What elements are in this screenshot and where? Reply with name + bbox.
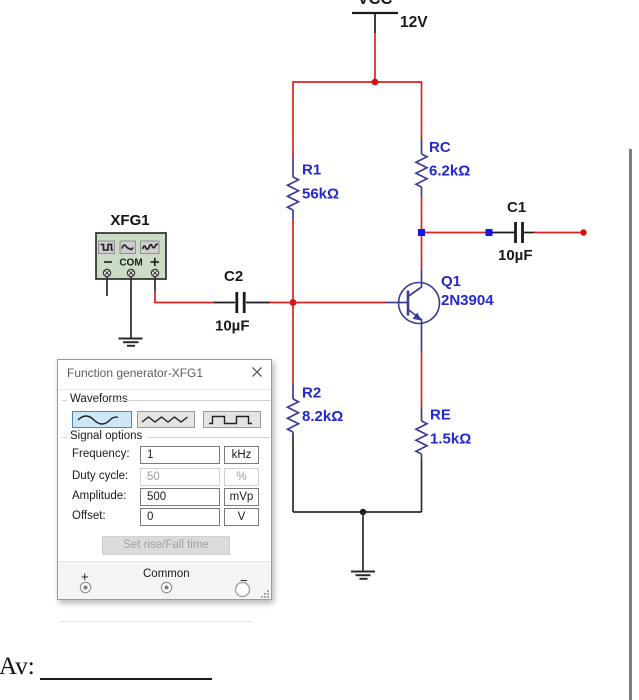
wire RC to collector node xyxy=(421,196,423,229)
resistor R2 xyxy=(288,384,344,435)
amplitude row xyxy=(72,490,126,502)
offset row xyxy=(72,510,106,522)
answer underline xyxy=(40,678,212,680)
svg-text:COM: COM xyxy=(119,258,142,269)
frequency row xyxy=(72,448,130,460)
signal options group label xyxy=(70,430,142,442)
svg-text:R2: R2 xyxy=(302,385,321,402)
wire XFG1 COM to ground xyxy=(130,277,132,339)
resistor R1 xyxy=(288,157,340,219)
svg-text:XFG1: XFG1 xyxy=(110,212,149,229)
svg-text:10µF: 10µF xyxy=(215,318,250,335)
wire output node to C1 xyxy=(425,232,486,234)
svg-text:RC: RC xyxy=(429,139,451,156)
plus radio xyxy=(79,581,92,594)
svg-text:RE: RE xyxy=(430,407,451,424)
wire RE to ground rail xyxy=(421,460,423,512)
svg-text:8.2kΩ: 8.2kΩ xyxy=(302,408,343,425)
wire left branch upper xyxy=(292,81,294,157)
scrollbar line xyxy=(629,149,632,700)
node collector square xyxy=(418,229,425,236)
dialog title xyxy=(67,366,203,380)
wire emitter xyxy=(421,351,423,407)
ground symbol main xyxy=(351,572,375,579)
output terminal dot xyxy=(580,229,586,235)
wire R2 to ground rail xyxy=(292,435,294,512)
svg-text:R1: R1 xyxy=(302,162,321,179)
waveforms group label xyxy=(70,393,128,405)
svg-text:10µF: 10µF xyxy=(498,247,533,264)
svg-text:C2: C2 xyxy=(224,268,243,285)
resistor RE xyxy=(416,407,471,461)
wire XFG1 plus lead xyxy=(155,277,214,303)
wire XFG1 minus stub xyxy=(106,277,108,296)
resistor RC xyxy=(416,139,470,196)
minus radio xyxy=(234,581,251,598)
power VCC symbol xyxy=(352,0,398,33)
label 12V xyxy=(400,14,428,31)
svg-text:VCC: VCC xyxy=(358,0,393,8)
wire right branch upper xyxy=(421,81,423,139)
waveform button triangle xyxy=(137,411,195,428)
function generator XFG1 icon xyxy=(96,212,166,279)
wire ground rail xyxy=(293,511,422,513)
svg-text:2N3904: 2N3904 xyxy=(441,292,494,309)
node C1 input square xyxy=(486,229,493,236)
svg-text:6.2kΩ: 6.2kΩ xyxy=(429,163,470,180)
wire left branch middle xyxy=(292,219,294,384)
instrument dialog Function generator-XFG1 xyxy=(57,359,272,600)
svg-text:1.5kΩ: 1.5kΩ xyxy=(430,431,471,448)
wire collector xyxy=(421,236,423,270)
resize grip xyxy=(260,589,270,599)
capacitor C1 xyxy=(493,199,535,264)
answer text Av xyxy=(0,653,35,681)
wire top rail xyxy=(293,81,422,83)
terminals row xyxy=(58,561,271,599)
wire C2 to base xyxy=(270,302,385,304)
wire VCC stem xyxy=(374,33,376,82)
wire ground stem xyxy=(362,512,364,572)
duty cycle row xyxy=(72,470,128,482)
ground symbol XFG1 xyxy=(119,339,143,346)
junction dot ground rail xyxy=(360,509,366,515)
junction dot top rail xyxy=(372,79,379,86)
waveform button sine selected xyxy=(72,411,132,428)
svg-text:56kΩ: 56kΩ xyxy=(302,186,339,203)
dialog close button xyxy=(251,366,263,378)
capacitor C2 xyxy=(214,268,270,335)
waveform button square xyxy=(203,411,261,428)
common radio xyxy=(160,581,173,594)
faint page line xyxy=(60,621,252,622)
svg-text:Q1: Q1 xyxy=(441,273,461,290)
svg-text:12V: 12V xyxy=(400,14,428,31)
set rise/fall button xyxy=(102,536,230,555)
svg-text:C1: C1 xyxy=(507,199,526,216)
transistor Q1 xyxy=(385,270,494,351)
wire C1 to output terminal xyxy=(534,232,583,234)
junction dot base node xyxy=(290,299,297,306)
